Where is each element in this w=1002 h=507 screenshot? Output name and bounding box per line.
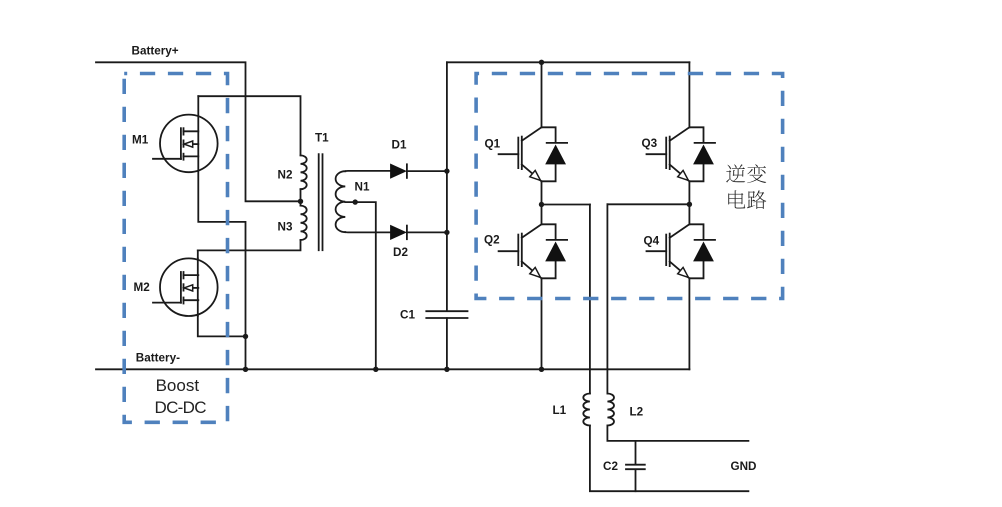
svg-text:Q1: Q1 <box>485 138 501 151</box>
svg-text:Q3: Q3 <box>642 137 658 150</box>
svg-text:GND: GND <box>731 460 757 473</box>
svg-text:Q4: Q4 <box>644 235 660 248</box>
svg-text:T1: T1 <box>315 132 329 145</box>
svg-text:D1: D1 <box>392 139 407 152</box>
svg-text:Battery+: Battery+ <box>132 45 179 58</box>
svg-text:M1: M1 <box>132 134 149 147</box>
svg-text:L1: L1 <box>553 404 567 417</box>
svg-text:C1: C1 <box>400 308 415 321</box>
svg-text:Boost: Boost <box>156 376 200 395</box>
svg-text:N3: N3 <box>278 221 293 234</box>
svg-text:Q2: Q2 <box>484 234 500 247</box>
svg-text:L2: L2 <box>630 405 644 418</box>
svg-text:DC-DC: DC-DC <box>155 398 207 417</box>
svg-text:N2: N2 <box>278 168 293 181</box>
svg-text:D2: D2 <box>393 246 408 259</box>
svg-text:N1: N1 <box>355 180 370 193</box>
svg-text:Battery-: Battery- <box>136 352 180 365</box>
svg-text:M2: M2 <box>134 281 151 294</box>
svg-text:C2: C2 <box>603 460 618 473</box>
